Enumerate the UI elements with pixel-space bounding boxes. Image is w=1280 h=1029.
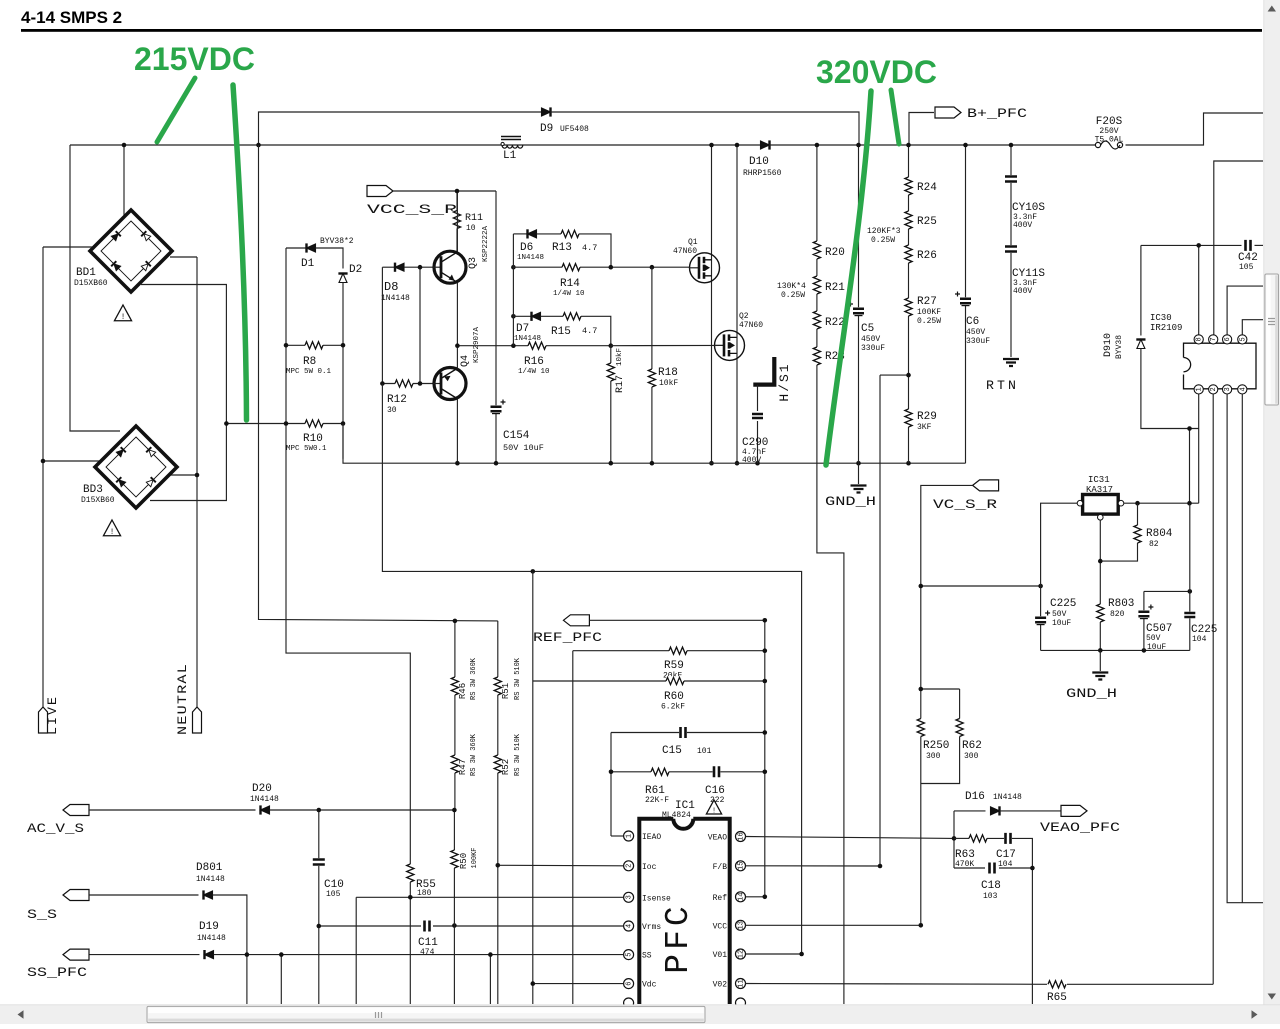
svg-text:R15: R15 — [551, 326, 571, 338]
svg-text:R62: R62 — [962, 740, 982, 752]
transistor Q2 47N60 MOSFET — [715, 330, 745, 360]
diode D19 — [205, 951, 214, 959]
IC30 pin 6 — [1223, 335, 1232, 344]
IC1 pin 15 F/B — [736, 861, 746, 871]
wire pin12 V01 row — [746, 953, 802, 955]
resistor R59 — [669, 646, 687, 656]
svg-text:R26: R26 — [917, 250, 937, 262]
capacitor CY11S — [1005, 245, 1017, 253]
IC30 pin 8 — [1194, 335, 1203, 344]
diode D7 — [513, 315, 531, 317]
svg-text:6.2kF: 6.2kF — [661, 703, 685, 712]
svg-text:Vdc: Vdc — [642, 981, 657, 990]
wire VC_S_R to KA317 input — [921, 585, 1041, 587]
vertical scrollbar thumb — [1265, 274, 1279, 405]
svg-text:C154: C154 — [503, 430, 530, 442]
resistor R21 — [812, 276, 822, 294]
svg-text:Q4: Q4 — [460, 355, 471, 367]
wire C10 column — [318, 810, 320, 1004]
svg-text:C18: C18 — [981, 880, 1001, 892]
IC1 pin 13 VCC — [736, 920, 746, 930]
capacitor C225 104 — [1189, 503, 1191, 650]
svg-text:C6: C6 — [966, 316, 979, 328]
warning triangle IC1 — [706, 800, 721, 814]
diode D910 — [1140, 245, 1142, 335]
IC1 pin 7 partial — [624, 998, 634, 1008]
wire comp left rail x=611 — [610, 733, 612, 837]
svg-text:R12: R12 — [387, 394, 407, 406]
svg-text:0.25W: 0.25W — [917, 317, 941, 326]
junction dots left section — [122, 143, 127, 148]
junction dots driver — [455, 189, 460, 194]
svg-text:R803: R803 — [1108, 598, 1134, 610]
IC30 pin 4 — [1238, 385, 1247, 394]
junction dots comp — [763, 618, 768, 623]
wire S_S drop x=281 — [280, 955, 282, 1004]
svg-text:2: 2 — [1210, 387, 1218, 391]
ground symbol GND_H ka317 — [1099, 650, 1101, 671]
svg-text:82: 82 — [1149, 540, 1159, 549]
svg-text:Q3: Q3 — [468, 257, 479, 269]
wire H/S1 to C290 — [757, 385, 759, 411]
resistor R8 — [305, 341, 323, 351]
svg-text:Ioc: Ioc — [642, 863, 657, 872]
svg-text:Ref: Ref — [713, 894, 728, 903]
svg-text:101: 101 — [697, 747, 712, 756]
resistor R22 — [812, 311, 822, 329]
svg-text:130K*4: 130K*4 — [777, 282, 806, 291]
svg-text:D15XB60: D15XB60 — [81, 496, 115, 505]
transistor Q1 47N60 MOSFET — [690, 253, 720, 283]
svg-text:22K-F: 22K-F — [645, 796, 669, 805]
wire pin5 to right edge — [1242, 320, 1263, 335]
wire pin4 Vrms row — [319, 925, 421, 927]
capacitor CY10S — [1005, 175, 1017, 183]
diode D16 — [954, 810, 986, 812]
resistor R20 — [812, 241, 822, 259]
svg-text:D19: D19 — [199, 921, 219, 933]
capacitor C11 — [423, 921, 431, 932]
svg-text:Isense: Isense — [642, 894, 671, 903]
resistor R11 — [456, 191, 458, 251]
svg-text:!: ! — [712, 807, 716, 815]
wire R55 bottom — [409, 882, 411, 1004]
IC1 pin 4 Vrms — [624, 921, 634, 931]
svg-text:BD1: BD1 — [76, 267, 96, 279]
resistor R18 — [651, 267, 653, 463]
svg-text:215VDC: 215VDC — [134, 41, 255, 77]
resistor R14 — [562, 262, 580, 272]
svg-text:10kF: 10kF — [659, 379, 678, 388]
wire NEUTRAL vertical — [196, 257, 198, 707]
svg-text:R65: R65 — [1047, 992, 1067, 1004]
svg-text:IEAO: IEAO — [642, 833, 661, 842]
svg-text:300: 300 — [964, 752, 979, 761]
svg-text:VEAO_PFC: VEAO_PFC — [1040, 820, 1120, 835]
flag AC_V_S — [63, 805, 89, 816]
wire pin4 drop — [1241, 394, 1243, 903]
svg-text:KSP2907A: KSP2907A — [473, 327, 481, 364]
annotation 320VDC pointer short — [891, 90, 899, 144]
svg-text:D9: D9 — [540, 123, 553, 135]
svg-text:IR2109: IR2109 — [1150, 323, 1182, 333]
svg-text:100KF: 100KF — [471, 847, 479, 868]
svg-text:RS 3W 510K: RS 3W 510K — [514, 733, 522, 776]
svg-text:30: 30 — [387, 406, 397, 415]
svg-text:4-14 SMPS 2: 4-14 SMPS 2 — [21, 8, 122, 27]
capacitor C507 — [1143, 591, 1145, 650]
wire BD3 right arm — [166, 474, 197, 476]
resistor R63 — [954, 837, 970, 839]
wire comp left column x=573 — [572, 651, 574, 1004]
svg-text:11: 11 — [738, 979, 746, 987]
heatsink H/S1 — [753, 357, 774, 385]
svg-text:1N4148: 1N4148 — [197, 934, 226, 943]
wire Isense drop x=356 — [355, 897, 357, 1004]
resistor R60 — [666, 676, 684, 686]
annotation 215VDC pointer long — [233, 85, 247, 420]
svg-text:D6: D6 — [520, 242, 533, 254]
resistor R26 — [904, 245, 914, 263]
IC30 pin 7 — [1209, 335, 1218, 344]
resistor R51 — [497, 621, 499, 1004]
inductor L1 — [501, 137, 521, 140]
resistor R12 — [382, 383, 433, 385]
wire R250/R62 top — [921, 688, 960, 690]
svg-text:Q1: Q1 — [688, 238, 698, 247]
svg-text:4: 4 — [626, 924, 634, 928]
svg-text:L1: L1 — [503, 150, 517, 162]
wire pin6 to right edge — [1227, 286, 1263, 335]
capacitor C10 — [313, 858, 325, 866]
wire C154 column — [495, 191, 497, 463]
wire comp rail R59 row — [573, 650, 765, 652]
svg-text:H/S1: H/S1 — [777, 362, 792, 401]
svg-text:10uF: 10uF — [1147, 643, 1166, 652]
svg-text:3: 3 — [626, 895, 634, 899]
diode D1 — [307, 244, 316, 252]
wire pin13 VCC row — [746, 924, 921, 926]
flag B+_PFC — [935, 107, 961, 118]
resistor R61 — [651, 767, 669, 777]
svg-text:1N4148: 1N4148 — [196, 875, 225, 884]
svg-text:474: 474 — [420, 948, 435, 957]
svg-text:180: 180 — [417, 889, 432, 898]
svg-text:1: 1 — [626, 834, 634, 838]
resistor R62 — [921, 689, 960, 784]
capacitor C42 — [1244, 240, 1252, 251]
ground symbol GND_H main — [858, 463, 860, 484]
svg-text:2: 2 — [626, 864, 634, 868]
wire driver feed x=382 to V01 — [382, 384, 801, 955]
svg-text:C5: C5 — [861, 323, 874, 335]
wire rail after fuse up to right edge — [1126, 113, 1264, 145]
svg-text:GND_H: GND_H — [1066, 686, 1117, 701]
wire Q2 gate row — [611, 344, 724, 346]
diode D9 — [542, 108, 551, 116]
wire C507 top row — [1144, 590, 1190, 592]
svg-text:R14: R14 — [560, 278, 580, 290]
flag VCC_S_R — [367, 186, 393, 197]
svg-text:5: 5 — [626, 952, 634, 956]
vertical scrollbar up arrow — [1268, 6, 1276, 12]
svg-text:LIVE: LIVE — [45, 695, 60, 735]
wire hot ground rail y=463 — [343, 424, 966, 464]
IC1 pin 1 IEAO — [624, 831, 634, 841]
svg-text:SS: SS — [642, 952, 652, 961]
svg-text:105: 105 — [326, 890, 341, 899]
wire D1 top branch — [286, 247, 307, 249]
wire pin1 IEAO from comp rail — [611, 835, 624, 837]
svg-text:VCC_S_R: VCC_S_R — [367, 202, 457, 217]
IC IC31 KA317 — [1083, 495, 1119, 515]
wire 215VDC negative rail y=423.5 — [226, 423, 343, 425]
wire pin14 Ref row — [746, 896, 765, 898]
svg-text:15: 15 — [738, 862, 746, 870]
svg-text:10: 10 — [466, 224, 476, 233]
svg-text:V02: V02 — [713, 981, 728, 990]
svg-text:R10: R10 — [303, 433, 323, 445]
svg-text:IC30: IC30 — [1150, 313, 1172, 323]
wire pin1 drop to KA317 output — [1198, 394, 1200, 503]
svg-text:16: 16 — [738, 832, 746, 840]
wire VC_S_R drop x=921 — [921, 485, 973, 925]
IC1 pin 10 partial — [736, 998, 746, 1008]
svg-text:4.7: 4.7 — [582, 243, 597, 253]
IC1 pin 16 VEAO — [736, 832, 746, 842]
svg-text:300: 300 — [926, 752, 941, 761]
svg-text:R22: R22 — [825, 317, 845, 329]
svg-text:D801: D801 — [196, 862, 223, 874]
svg-text:VEAO: VEAO — [708, 834, 727, 843]
svg-text:1/4W 10: 1/4W 10 — [518, 368, 550, 376]
flag SS_PFC — [63, 949, 89, 960]
svg-text:RS 3W 510K: RS 3W 510K — [514, 657, 522, 700]
wire Vdc column x=533 — [532, 571, 534, 1004]
wire pin2 Ioc from R52 — [498, 864, 624, 867]
svg-text:100KF: 100KF — [917, 308, 941, 317]
wire KA317 input riser — [1041, 503, 1078, 586]
svg-text:400V: 400V — [1013, 287, 1032, 296]
wire R20-R23 chain x=817 — [817, 145, 844, 1004]
wire BD3 left arm — [43, 460, 100, 462]
wire C42 row y=245.4 — [1141, 244, 1242, 246]
wire KA317 ground row — [1041, 649, 1190, 651]
svg-text:0.25W: 0.25W — [871, 236, 895, 245]
svg-text:KSP2222A: KSP2222A — [482, 226, 490, 263]
wire pin6 Vdc row — [533, 983, 624, 985]
svg-text:R59: R59 — [664, 660, 684, 672]
svg-text:D910: D910 — [1103, 333, 1114, 357]
wire C15 row — [611, 732, 765, 734]
bridge rectifier BD3 — [95, 426, 177, 508]
svg-text:8: 8 — [1196, 337, 1204, 341]
capacitor C290 — [752, 413, 763, 420]
horizontal scrollbar thumb — [147, 1006, 705, 1022]
svg-text:R51: R51 — [501, 683, 511, 699]
svg-text:V01: V01 — [713, 951, 728, 960]
wire D2 to R8/R10 column — [342, 283, 344, 459]
svg-text:D8: D8 — [384, 280, 398, 294]
svg-text:D20: D20 — [252, 783, 272, 795]
wire BD1 top to rail — [123, 145, 125, 216]
IC IC1 ML4824 body — [639, 819, 729, 1004]
svg-text:Vrms: Vrms — [642, 923, 661, 932]
svg-text:ML4824: ML4824 — [662, 811, 691, 820]
svg-text:KA317: KA317 — [1086, 485, 1113, 495]
svg-text:12: 12 — [738, 950, 746, 958]
svg-text:R16: R16 — [524, 356, 544, 368]
svg-text:820: 820 — [1110, 610, 1125, 619]
resistor R17 — [610, 346, 612, 464]
svg-text:R25: R25 — [917, 216, 937, 228]
wire Q2 drain-source bus x=737 — [736, 145, 738, 463]
svg-text:R18: R18 — [658, 367, 678, 379]
svg-text:0.25W: 0.25W — [781, 291, 805, 300]
wire right edge y=161 to pin7 — [1214, 161, 1263, 335]
svg-text:R50: R50 — [459, 853, 469, 869]
svg-text:103: 103 — [983, 892, 998, 901]
wire left sense column x=286 — [286, 248, 410, 865]
annotation 215VDC pointer short — [157, 78, 195, 142]
svg-text:R52: R52 — [501, 759, 511, 775]
wire SS drop x=490 — [489, 955, 491, 1004]
wire driver output to gates row y=346 — [457, 345, 611, 347]
wire emitter junction column — [456, 283, 458, 368]
diode D10 on rail — [761, 141, 770, 149]
wire pin8 riser — [1198, 245, 1200, 334]
resistor R803 — [1096, 604, 1106, 622]
wire R8 row — [286, 344, 343, 346]
svg-text:RHRP1560: RHRP1560 — [743, 169, 782, 178]
IC IC30 IR2109 — [1184, 343, 1257, 389]
wire R27/R29 tap to F/B column — [880, 374, 909, 376]
svg-text:104: 104 — [1192, 635, 1207, 644]
wire R14 output to Q1 gate — [652, 266, 689, 268]
svg-text:7: 7 — [1210, 337, 1218, 341]
svg-text:R46: R46 — [458, 683, 468, 699]
wire pin3 drop to right edge — [1227, 394, 1263, 903]
capacitor C5 — [858, 145, 860, 463]
IC1 pin 6 Vdc — [624, 979, 634, 989]
svg-text:D2: D2 — [349, 264, 362, 276]
wire R60 row — [533, 680, 765, 682]
svg-text:R250: R250 — [923, 740, 949, 752]
svg-text:1N4148: 1N4148 — [517, 254, 544, 262]
resistor R24 — [904, 177, 914, 195]
svg-text:10uF: 10uF — [1052, 619, 1071, 628]
wire main 215V rail y=145 — [70, 144, 761, 146]
resistor R25 — [904, 211, 914, 229]
wire Ioc corner drop — [497, 864, 499, 866]
svg-text:BYV38*2: BYV38*2 — [320, 237, 354, 246]
junction dots R24 chain — [906, 143, 911, 148]
svg-text:PFC: PFC — [660, 902, 697, 973]
svg-text:R47: R47 — [458, 759, 468, 775]
svg-text:T5.0AL: T5.0AL — [1095, 136, 1124, 145]
svg-text:R11: R11 — [465, 213, 483, 224]
svg-text:IC31: IC31 — [1088, 475, 1110, 485]
resistor R27 — [904, 298, 914, 316]
flag NEUTRAL — [193, 707, 202, 733]
svg-text:R8: R8 — [303, 356, 316, 368]
svg-text:Q2: Q2 — [739, 312, 749, 321]
diode D6 — [528, 230, 537, 238]
IC30 pin 5 — [1238, 335, 1247, 344]
resistor R23 — [812, 347, 822, 365]
IC1 pin 14 Ref — [736, 892, 746, 902]
resistor R29 — [904, 409, 914, 427]
capacitor C16 — [713, 766, 721, 777]
junction dots ground rail — [455, 461, 460, 466]
transistor Q3 KSP2222A — [434, 251, 466, 283]
IC30 pin 3 — [1223, 385, 1232, 394]
junction dot R20 top — [815, 143, 820, 148]
svg-text:105: 105 — [1239, 263, 1254, 272]
svg-text:C15: C15 — [662, 745, 682, 757]
capacitor C6 — [965, 145, 967, 463]
svg-text:400V: 400V — [1013, 221, 1032, 230]
resistor R16 — [528, 341, 546, 351]
svg-text:D16: D16 — [965, 791, 985, 803]
IC30 pin 2 — [1209, 385, 1218, 394]
svg-text:BYV38: BYV38 — [1115, 335, 1124, 359]
wire AC_V_S row — [89, 809, 256, 811]
svg-text:R27: R27 — [917, 296, 937, 308]
flag VEAO_PFC — [1061, 805, 1087, 816]
svg-text:3: 3 — [1224, 387, 1232, 391]
svg-text:R17: R17 — [615, 375, 626, 393]
wire KA317 output riser x=1189.5 — [1189, 429, 1191, 504]
warning triangle below BD1 — [114, 305, 131, 321]
resistor R50 — [453, 810, 455, 1004]
svg-text:120KF*3: 120KF*3 — [867, 227, 901, 236]
warning triangle below BD3 — [103, 520, 120, 536]
flag VC_S_R — [973, 480, 999, 491]
resistor R52 — [493, 755, 503, 773]
svg-text:BD3: BD3 — [83, 484, 103, 496]
wire BD1 left arm to LIVE line — [43, 246, 92, 248]
svg-text:1/4W 10: 1/4W 10 — [553, 290, 585, 298]
IC1 pin 11 V02 — [736, 979, 746, 989]
svg-text:6: 6 — [1224, 337, 1232, 341]
resistor R804 — [1100, 503, 1137, 561]
svg-text:R29: R29 — [917, 411, 937, 423]
svg-text:D15XB60: D15XB60 — [74, 279, 108, 288]
capacitor C15 — [679, 727, 687, 738]
wire VCC_S_R to C154 column — [393, 190, 496, 192]
svg-text:1N4148: 1N4148 — [250, 795, 279, 804]
diode D801 — [204, 891, 213, 899]
svg-text:4.7: 4.7 — [582, 326, 597, 336]
svg-text:REF_PFC: REF_PFC — [533, 630, 602, 645]
svg-text:3KF: 3KF — [917, 423, 932, 432]
diode D20 — [261, 806, 270, 814]
wire R24-R27 chain x=908.5 — [908, 145, 910, 463]
svg-text:RTN: RTN — [986, 378, 1019, 393]
svg-text:F/B: F/B — [713, 863, 728, 872]
svg-text:50V 10uF: 50V 10uF — [503, 443, 544, 453]
svg-text:320VDC: 320VDC — [816, 54, 937, 90]
annotation 320VDC pointer long — [826, 91, 871, 465]
wire D9 bypass branch y=112 — [259, 112, 542, 145]
svg-text:5: 5 — [1239, 337, 1247, 341]
svg-text:SS_PFC: SS_PFC — [27, 965, 87, 980]
svg-text:NEUTRAL: NEUTRAL — [175, 663, 190, 735]
title underline — [21, 29, 1262, 32]
wire rail after D10 to fuse — [769, 144, 1095, 146]
wire LIVE vertical — [42, 247, 44, 707]
